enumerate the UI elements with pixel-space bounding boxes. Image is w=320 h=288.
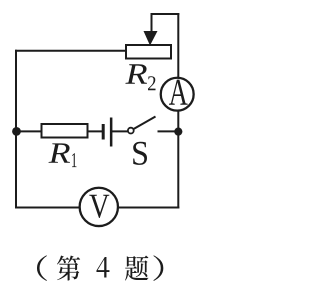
junction node left bbox=[12, 127, 21, 136]
wire left vertical bbox=[15, 51, 17, 208]
rheostat R2 body bbox=[126, 45, 171, 59]
label R1 letter R bbox=[48, 143, 70, 162]
junction node right bbox=[174, 128, 182, 136]
caption char 第 bbox=[57, 256, 80, 281]
caption digit 4 bbox=[96, 257, 109, 277]
ammeter A1 circle bbox=[161, 78, 194, 111]
battery positive plate long bbox=[110, 118, 113, 147]
caption char 题 bbox=[125, 256, 148, 281]
switch S pivot bbox=[128, 128, 134, 134]
wire bottom horizontal bbox=[16, 207, 178, 209]
resistor R1 body bbox=[42, 124, 88, 138]
label R1 subscript 1 bbox=[72, 153, 76, 167]
wire top horizontal bbox=[16, 50, 126, 52]
wire switch-to-node bbox=[159, 130, 179, 132]
voltmeter letter V bbox=[89, 195, 109, 218]
label R2 subscript 2 bbox=[148, 76, 156, 90]
wire battery-to-switch bbox=[112, 130, 128, 132]
battery negative plate short bbox=[102, 124, 105, 140]
wire R1-to-battery bbox=[88, 130, 103, 132]
rheostat slider arrowhead bbox=[144, 31, 158, 46]
caption paren left bbox=[37, 255, 47, 280]
wire slider top horizontal bbox=[152, 13, 179, 15]
label S bbox=[133, 142, 147, 165]
voltmeter V1 circle bbox=[80, 188, 118, 226]
caption paren right bbox=[153, 255, 163, 280]
wire right vertical bbox=[177, 14, 179, 208]
label R2 letter R bbox=[125, 64, 147, 83]
wire node-to-R1 bbox=[17, 130, 42, 132]
ammeter letter A bbox=[169, 80, 188, 105]
wire R2 slider stem bbox=[151, 14, 153, 34]
switch S lever bbox=[134, 117, 156, 130]
